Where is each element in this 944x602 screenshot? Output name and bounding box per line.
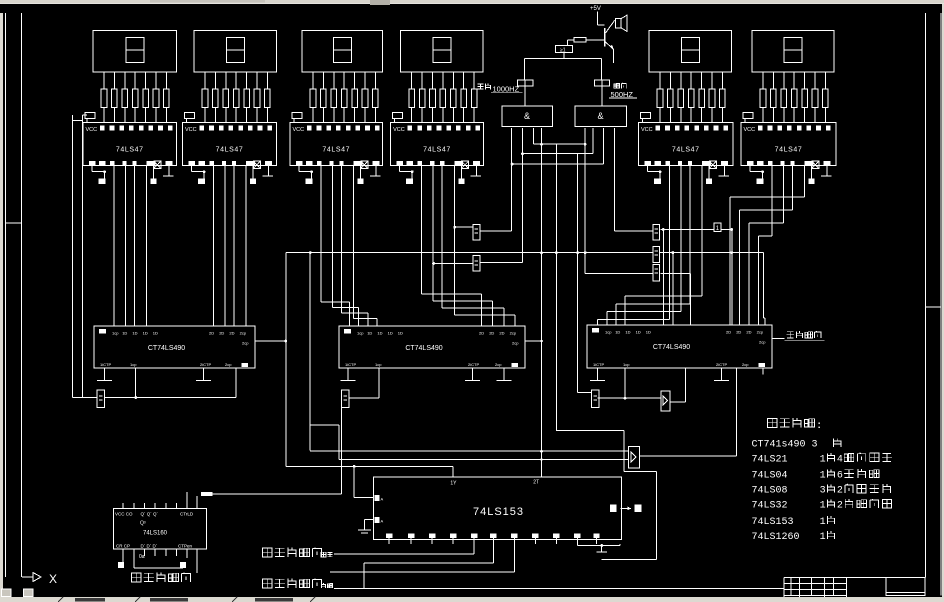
bus wire y466 (1Y) [286,465,453,477]
inverter G4 [653,247,660,263]
inverter G1 [473,224,480,240]
sheet border left outer line [5,13,7,577]
wire U10 pin nested 1 [364,544,493,589]
svg-text:CT741s490 3: CT741s490 3 [752,440,818,451]
resistor network RN6 [760,89,828,108]
svg-text:VCC: VCC [393,127,405,133]
wires resistors to U1 [104,108,166,123]
svg-text:1D: 1D [398,331,403,336]
multiplexer 74LS153 U10 [373,477,621,539]
svg-text:2cp: 2cp [510,331,517,336]
wire bridge y144 (U8 pin3 - U9 pin1) [534,128,587,146]
sheet border left tick [6,222,22,224]
svg-text:2cp: 2cp [742,362,749,367]
title block right box [847,578,925,596]
VCC hook U2 [185,113,195,123]
svg-text:2cp: 2cp [512,341,519,346]
svg-text:Q³: Q³ [140,521,146,527]
svg-text:74LS47: 74LS47 [775,147,803,154]
and-gate U9 (&) [575,106,626,127]
bus wire y459 [310,425,628,460]
svg-text:1: 1 [820,532,826,543]
svg-text:CTrLD: CTrLD [180,512,194,517]
svg-text:VCC: VCC [293,127,305,133]
svg-text:2D: 2D [726,330,731,335]
svg-text:2D: 2D [479,331,484,336]
svg-text:74LS153: 74LS153 [752,517,794,528]
wire B2 output to K3 [639,368,736,456]
base resistor R8 [568,38,605,46]
parts list row 7 [752,531,835,543]
and-gate U8 (&) [502,106,552,127]
resistor network RN3 [310,89,378,108]
svg-text:1D: 1D [122,331,127,336]
U3 ground/pad wiring below [299,166,380,184]
title block grid [784,578,847,600]
svg-text:6: 6 [837,471,843,482]
wire G3 out branch to K3 pin [662,228,665,325]
wiring under K3 [598,368,661,400]
svg-text:2cp: 2cp [240,331,247,336]
7-segment display DS6 [752,31,834,73]
bus wire y430 elbow [556,430,624,471]
sheet border left inner line [21,13,23,577]
sheet border right inner line [925,13,927,578]
svg-text:1: 1 [820,517,826,528]
wire U9 pin4 to G3 [615,128,654,231]
BCD decoder 74LS47 U1 [83,122,177,168]
parts list row 1 [752,438,841,450]
wires DS2 to resistors [205,72,267,89]
svg-text:A: A [381,497,384,502]
K3 ground symbols [590,368,729,381]
wires DS5 to resistors [660,72,722,89]
VCC hook U4 [393,113,403,123]
svg-text:&: & [597,111,603,121]
wires resistors to U5 [660,108,722,123]
svg-text:2D: 2D [499,331,504,336]
wire bridge y153 (U8 pin2 - U9 pin2) [523,128,594,154]
label second-pulse input [772,331,824,341]
svg-text:+5V: +5V [590,6,601,12]
counter 74LS160 U11 [113,508,206,549]
wiring under K1 [105,368,236,399]
svg-text:&: & [524,111,530,121]
svg-text:1D: 1D [646,330,651,335]
U5 ground/pad wiring below [648,166,729,184]
window right edge [942,4,944,597]
wire bundle U2 outputs to counter K1 [214,166,247,326]
speaker LS1 [615,15,627,31]
wire bridge y164 (G1 feed - U9 pin3) [511,128,604,166]
K2 ground symbols [341,368,512,381]
wires resistors to U2 [205,108,267,123]
trunk vertical x310 [309,253,311,451]
inverter G5 [653,265,660,281]
transistor Q1 [605,21,616,63]
7-segment display DS2 [194,31,277,73]
U1 ground/pad wiring below [92,166,173,184]
svg-text:1D: 1D [636,330,641,335]
wire bundle U5 outputs to counter K3 [598,166,703,325]
wire U10 pin nested 2 [330,544,514,572]
UCS icon arrow [22,573,41,582]
wires DS1 to resistors [104,72,166,89]
parts list row 3 [752,469,880,482]
svg-text:1D: 1D [367,331,372,336]
BCD decoder 74LS47 U6 [741,122,836,168]
svg-text:2: 2 [837,486,843,497]
wires DS3 to resistors [313,72,375,89]
svg-text:X: X [49,572,57,586]
or-gate U7 (>=1) [556,45,573,53]
pulse source pad above U11 [201,407,341,496]
svg-text:1cp: 1cp [112,331,119,336]
bus wire y252 (K1 output to G4 input) [286,251,653,254]
svg-text:2D: 2D [489,331,494,336]
svg-text:A: A [381,519,384,524]
trunk vertical x556 [555,144,558,430]
svg-text:74LS47: 74LS47 [672,147,700,154]
svg-text:74LS47: 74LS47 [322,147,350,154]
svg-text:1cp: 1cp [623,362,630,367]
svg-text:1: 1 [820,454,826,465]
wiring under K2 [349,368,379,398]
svg-text:4: 4 [837,454,843,465]
wire U7 output split [525,52,602,80]
parts list row 6 [752,516,835,528]
wire U10 pin to manual-pulse (hour set) [334,544,474,554]
crystal Y2 500HZ [594,80,609,86]
wire G1 input [453,226,473,229]
svg-text:VCC: VCC [86,127,98,133]
VCC hook U1 [85,113,95,123]
parts list row 2 [752,453,892,466]
wire bundle U4 outputs to counter K2 [422,166,516,326]
wires resistors to U6 [763,108,825,123]
svg-text:VCC: VCC [641,127,653,133]
wire +5V [596,12,598,26]
svg-text:74LS32: 74LS32 [752,501,788,512]
wires DS6 to resistors [763,72,825,89]
wire B1 output [671,368,686,402]
wire G3 out through box1 [660,228,733,231]
svg-text:≥1: ≥1 [560,48,566,54]
parts list row 5 [752,499,892,512]
svg-text:1D: 1D [377,331,382,336]
svg-text:1D: 1D [388,331,393,336]
U10 bottom pin stubs [389,538,596,544]
U10 left input wires [354,466,373,533]
svg-text:CT74LS490: CT74LS490 [653,344,690,351]
svg-text:2iCTP: 2iCTP [716,362,727,367]
wire U9 pin1 down to inverter G5 [584,128,654,274]
window left edge [0,13,3,597]
svg-text:D´ D´ D´: D´ D´ D´ [141,544,158,549]
wire G5 out [660,274,690,325]
svg-text:CTPen: CTPen [178,544,193,549]
decade counter CT74LS490 K3 [587,325,772,368]
U11 bottom wiring and pads [118,549,197,573]
U4 ground/pad wiring below [400,166,481,184]
label manual pulse (minute set) [262,578,332,587]
svg-text:2iCTP: 2iCTP [468,362,479,367]
svg-text:CT74LS490: CT74LS490 [405,345,442,352]
wire bundle U6 outputs to counter K3 [730,166,805,325]
svg-text:2D: 2D [746,330,751,335]
svg-text:2iCTP: 2iCTP [200,362,211,367]
wire K2 2cp output to 2T trunk [525,340,542,342]
resistor network RN1 [101,89,169,108]
K1 ground symbols [97,368,211,381]
trunk vertical x577 to K3 pulse box [576,154,592,393]
BCD decoder 74LS47 U3 [290,122,383,168]
svg-text:1cp: 1cp [375,362,382,367]
wire U8 pin2 to inverter G2 [480,128,524,263]
7-segment display DS1 [93,31,177,73]
trunk vertical x285 (K1 output riser) [284,253,287,467]
label manual pulse (U11) [131,572,190,581]
sheet border right tick [926,306,942,308]
svg-text:1iCTP: 1iCTP [100,362,111,367]
svg-text:74LS47: 74LS47 [116,147,144,154]
decade counter CT74LS490 K2 [339,326,525,368]
svg-text:3: 3 [820,486,826,497]
U6 ground/pad wiring below [750,166,831,184]
BCD decoder 74LS47 U5 [639,122,734,168]
K3 bottom-right stub [762,368,764,375]
label manual pulse (hour set) [262,547,332,556]
inverter G2 [473,256,480,272]
wires resistors to U4 [412,108,474,123]
svg-text:CT74LS490: CT74LS490 [148,345,185,352]
wires DS4 to resistors [412,72,474,89]
svg-text:1cp: 1cp [605,330,612,335]
svg-text:1cp: 1cp [130,362,137,367]
resistor network RN2 [202,89,270,108]
svg-text:1D: 1D [143,331,148,336]
pulse gate box under K2 [341,390,349,407]
wire box1 to counter K3 pin [730,230,733,326]
svg-text:74LS160: 74LS160 [143,531,168,537]
7-segment display DS5 [649,31,732,73]
parts list row 4 [752,484,891,497]
svg-text:1D: 1D [615,330,620,335]
trunk right vertical x763 [763,253,765,325]
svg-text:74LS21: 74LS21 [752,454,788,465]
svg-text:74LS1260: 74LS1260 [752,532,800,543]
7-segment display DS3 [302,31,383,73]
svg-text:2cp: 2cp [757,330,764,335]
BCD decoder 74LS47 U4 [391,122,484,168]
svg-text:1cp: 1cp [357,331,364,336]
model/layout tabs text (clipped) [58,597,315,602]
wire bundle U1 outputs to counter K1 [114,166,147,326]
wire G4 out branch to K3 pin [672,251,675,325]
svg-text:2cp: 2cp [495,362,502,367]
svg-text:2T: 2T [533,480,539,486]
pulse gate box under K3 [592,390,600,407]
VCC hook U5 [641,113,651,123]
VCC hook U3 [292,113,302,123]
decade counter CT74LS490 K1 [94,326,255,368]
wire manual-pulse (minute set) long run [334,588,784,590]
svg-text:1iCTP: 1iCTP [593,362,604,367]
svg-text:74LS08: 74LS08 [752,486,788,497]
svg-text:VCC: VCC [744,127,756,133]
svg-text:2cp: 2cp [225,362,232,367]
wire G2 input [432,262,473,265]
label 1000HZ [477,84,522,94]
VCC hook U6 [743,113,753,123]
svg-text:2D: 2D [736,330,741,335]
svg-text:1D: 1D [132,331,137,336]
left trunk wires from U1 region [73,115,98,398]
wire bundle U3 outputs to counter K2 [321,166,377,326]
svg-text:2D: 2D [229,331,234,336]
resistor network RN4 [409,89,477,108]
7-segment display DS4 [401,31,483,73]
inverter B1 [661,391,670,411]
svg-text:1iCTP: 1iCTP [345,362,356,367]
svg-text:1D: 1D [153,331,158,336]
svg-text:1: 1 [820,501,826,512]
svg-text:2D: 2D [219,331,224,336]
svg-text:74LS04: 74LS04 [752,471,788,482]
BCD decoder 74LS47 U2 [183,122,277,168]
svg-text:2cp: 2cp [759,340,766,345]
inverter G3 [653,224,660,240]
inverter B2 [628,446,639,468]
wire Y1 to and-gate [524,86,526,106]
svg-text:74LS47: 74LS47 [216,147,244,154]
svg-text:1: 1 [820,471,826,482]
svg-text:74LS153: 74LS153 [473,506,524,518]
svg-text:1Y: 1Y [450,481,457,487]
U10 output arrow and pad [621,505,642,513]
gate box 1 (inverter) [714,223,721,232]
parts list heading [767,418,820,431]
trunk 2T vertical (U8 pin4) to 74LS153 [540,128,543,477]
bottom tab bar [0,589,944,602]
svg-text:1D: 1D [625,330,630,335]
crystal Y1 1000HZ [518,80,533,86]
U2 ground/pad wiring below [192,166,273,184]
bus wire y451 to inverter B2 [310,450,628,453]
U11 top pin stubs [123,492,197,509]
svg-text:74LS47: 74LS47 [423,147,451,154]
svg-text:VCC CO: VCC CO [115,512,133,517]
wire G4 out [660,252,764,254]
svg-text:Q´ Q´ Q´: Q´ Q´ Q´ [141,512,159,517]
wires resistors to U3 [313,108,375,123]
sheet border right outer line [940,13,942,595]
resistor network RN5 [657,89,725,108]
pulse gate box under K1 [97,390,105,407]
wire U8 pin1 to inverter G1 [480,128,511,231]
window top bar [0,0,944,3]
svg-text::: : [818,420,821,431]
label 500HZ [609,83,637,99]
svg-text:2cp: 2cp [242,341,249,346]
svg-text:2: 2 [837,501,843,512]
svg-text:VCC: VCC [185,127,197,133]
svg-text:CR CP: CR CP [116,544,130,549]
wire K1 2cp output [255,340,286,342]
svg-text:2D: 2D [209,331,214,336]
U10 bottom right ground loop [577,544,620,552]
wire Y2 to and-gate [601,86,603,106]
wire B2 lower loop to ground [602,471,657,559]
